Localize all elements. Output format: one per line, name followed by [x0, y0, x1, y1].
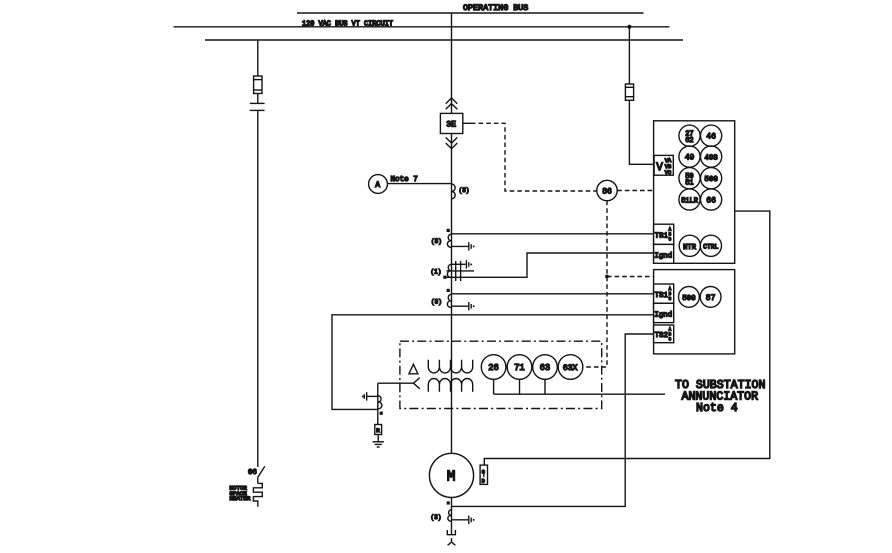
svg-text:49S: 49S: [704, 155, 718, 163]
device 27/62: [679, 125, 700, 146]
wire box2 TS2 to motor CT: [452, 334, 654, 506]
aux CT vertical: [377, 383, 379, 424]
wire CT1 to TS1 box1: [452, 233, 654, 235]
CT3 polarity dot: [447, 289, 450, 292]
svg-text:M: M: [447, 470, 456, 486]
device 71: [507, 355, 532, 380]
relay box U2: [654, 270, 735, 354]
device 50/51: [679, 168, 700, 189]
input box TS2 box2: [654, 325, 674, 343]
wire motor neutral: [451, 498, 453, 535]
contact chevrons below 3E: [446, 137, 458, 148]
wire 71 stub: [519, 379, 521, 394]
device 63: [533, 355, 558, 380]
svg-text:(3): (3): [431, 514, 442, 521]
svg-text:51LR: 51LR: [681, 197, 699, 205]
transformer enclosure dash-dot box: [400, 341, 602, 408]
input box TS1 box2: [654, 284, 674, 303]
wye symbol: [414, 378, 420, 389]
wire to substation annunciator: [494, 393, 665, 395]
svg-text:66: 66: [706, 197, 716, 206]
svg-text:TS1: TS1: [655, 233, 669, 241]
bottom CT polarity dot: [447, 501, 450, 504]
wire left branch drop: [257, 40, 259, 76]
contactor 3E: [440, 113, 462, 133]
terminal symbol aux CT: [362, 392, 367, 400]
svg-text:TS2: TS2: [655, 332, 668, 340]
wire Ignd box2 feed: [332, 315, 654, 410]
switch 06: [248, 466, 265, 477]
CT1 polarity dot: [447, 229, 450, 232]
svg-text:51: 51: [685, 180, 693, 188]
svg-text:62: 62: [685, 137, 693, 145]
wire operating bus L1: [297, 12, 644, 14]
svg-text:49: 49: [685, 154, 695, 163]
svg-text:VC: VC: [665, 170, 671, 176]
svg-text:(8): (8): [431, 299, 442, 306]
CT2 tapped winding: [431, 261, 475, 281]
coil note7: [452, 184, 456, 199]
bracket neutral connector: [447, 530, 455, 535]
device 49S: [701, 146, 722, 167]
svg-text:63X: 63X: [563, 364, 578, 373]
svg-text:71: 71: [514, 363, 525, 373]
wire dashed 86 down to 63X: [583, 201, 607, 367]
wire 3E control stub: [463, 122, 471, 124]
wire CT3 to TS1 box2: [452, 293, 654, 295]
device 50G: [701, 168, 722, 189]
svg-text:3E: 3E: [446, 121, 456, 130]
wire CT2 to Ignd box1: [447, 253, 654, 277]
wire CT1 secondary stub: [452, 245, 469, 247]
svg-text:(8): (8): [459, 187, 470, 194]
wire aux primary into transformer wye: [378, 382, 414, 384]
wire dashed 3E to 86: [471, 123, 597, 191]
CT2 polarity dot: [443, 276, 446, 279]
node junction dot on L2: [627, 25, 631, 29]
input box Ignd box2: [654, 303, 674, 322]
node dashed junction dot: [605, 275, 609, 279]
wire left branch down: [257, 110, 259, 467]
svg-text:06: 06: [248, 469, 257, 477]
svg-text:50G: 50G: [682, 295, 695, 303]
CT3 coil (8): [431, 294, 452, 307]
wire center feeder to motor: [451, 134, 453, 454]
wire dashed junction to box2: [607, 276, 654, 278]
cable end Y symbol: [448, 538, 456, 545]
wire box1 to GD box: [484, 211, 770, 465]
motor M: [429, 453, 473, 497]
svg-text:86: 86: [602, 188, 612, 197]
aux CT polarity dot: [380, 412, 383, 415]
svg-text:D: D: [482, 479, 485, 485]
svg-text:50G: 50G: [704, 176, 717, 184]
wire note7 tap: [387, 183, 451, 185]
svg-text:NTR: NTR: [683, 244, 697, 252]
CT1 coil (S): [431, 234, 452, 247]
svg-text:Note 7: Note 7: [391, 176, 418, 184]
device 87: [700, 287, 721, 308]
capacitor plates left branch: [250, 94, 265, 111]
svg-text:63: 63: [540, 363, 551, 373]
device NTR: [679, 235, 700, 256]
svg-text:V: V: [656, 162, 663, 174]
wire 63 stub: [544, 379, 546, 394]
heater element motor space heater: [253, 477, 262, 507]
device 66: [701, 189, 722, 210]
bottom CT coil (3): [431, 510, 452, 522]
input box V VA VB VC: [654, 155, 673, 175]
input box TS1 box1: [654, 224, 674, 244]
wire center feeder drop: [451, 13, 453, 113]
svg-text:A: A: [375, 181, 380, 190]
svg-text:CTRL: CTRL: [703, 244, 719, 251]
node A circle Note 7: [369, 175, 418, 194]
svg-text:(S): (S): [431, 238, 442, 245]
device 63X: [558, 355, 583, 380]
terminal symbol CT3: [469, 302, 475, 310]
aux CT coil: [378, 396, 382, 409]
svg-text:R: R: [376, 427, 380, 434]
svg-text:26: 26: [488, 363, 499, 373]
transformer secondary winding: [428, 379, 472, 392]
device 49: [679, 146, 700, 167]
svg-text:Note 4: Note 4: [696, 402, 738, 415]
wire fuse to V input: [629, 100, 654, 164]
input box Ignd box1: [654, 244, 674, 263]
resistor R: [375, 425, 382, 435]
svg-text:HEATER: HEATER: [230, 495, 251, 502]
wire bottom CT secondary stub: [452, 519, 469, 521]
relay box U1: [654, 121, 735, 263]
contact chevrons above 3E: [446, 98, 458, 109]
svg-text:TS1: TS1: [655, 292, 669, 300]
device 50G box2: [679, 287, 700, 308]
device 51LR: [679, 189, 700, 210]
device 46: [701, 125, 722, 146]
wire R to ground: [377, 435, 379, 442]
wire bus L3: [205, 39, 683, 41]
svg-text:87: 87: [706, 294, 716, 303]
terminal symbol bottom CT: [469, 516, 475, 524]
device CTRL: [700, 235, 721, 256]
wire CT3 secondary stub: [452, 305, 469, 307]
wire 26 stub: [493, 379, 495, 394]
ground detector GD box: [480, 465, 487, 485]
fuse F2 right: [625, 84, 633, 100]
node TO SUBSTATION ANNUNCIATOR label: [675, 379, 765, 415]
delta symbol: [409, 364, 418, 374]
wire VT drop to fuse: [628, 27, 630, 84]
transformer primary winding: [428, 360, 472, 373]
node MOTOR SPACE HEATER label: [230, 485, 251, 502]
terminal symbol CT2: [466, 260, 472, 268]
svg-text:(1): (1): [431, 269, 442, 276]
fuse F1 left: [254, 76, 262, 94]
svg-text:Ignd: Ignd: [654, 311, 672, 319]
wire 120 VAC bus L2: [174, 26, 670, 28]
svg-text:OPERATING BUS: OPERATING BUS: [463, 3, 528, 13]
device 86 lockout: [597, 180, 617, 200]
svg-text:Ignd: Ignd: [654, 252, 672, 260]
svg-text:46: 46: [706, 133, 716, 142]
ground: [373, 442, 384, 447]
wire dashed 86 to relay box1: [617, 190, 653, 192]
wire aux CT secondary stub: [367, 395, 378, 397]
terminal symbol CT1: [469, 242, 475, 250]
device 26: [481, 355, 506, 380]
